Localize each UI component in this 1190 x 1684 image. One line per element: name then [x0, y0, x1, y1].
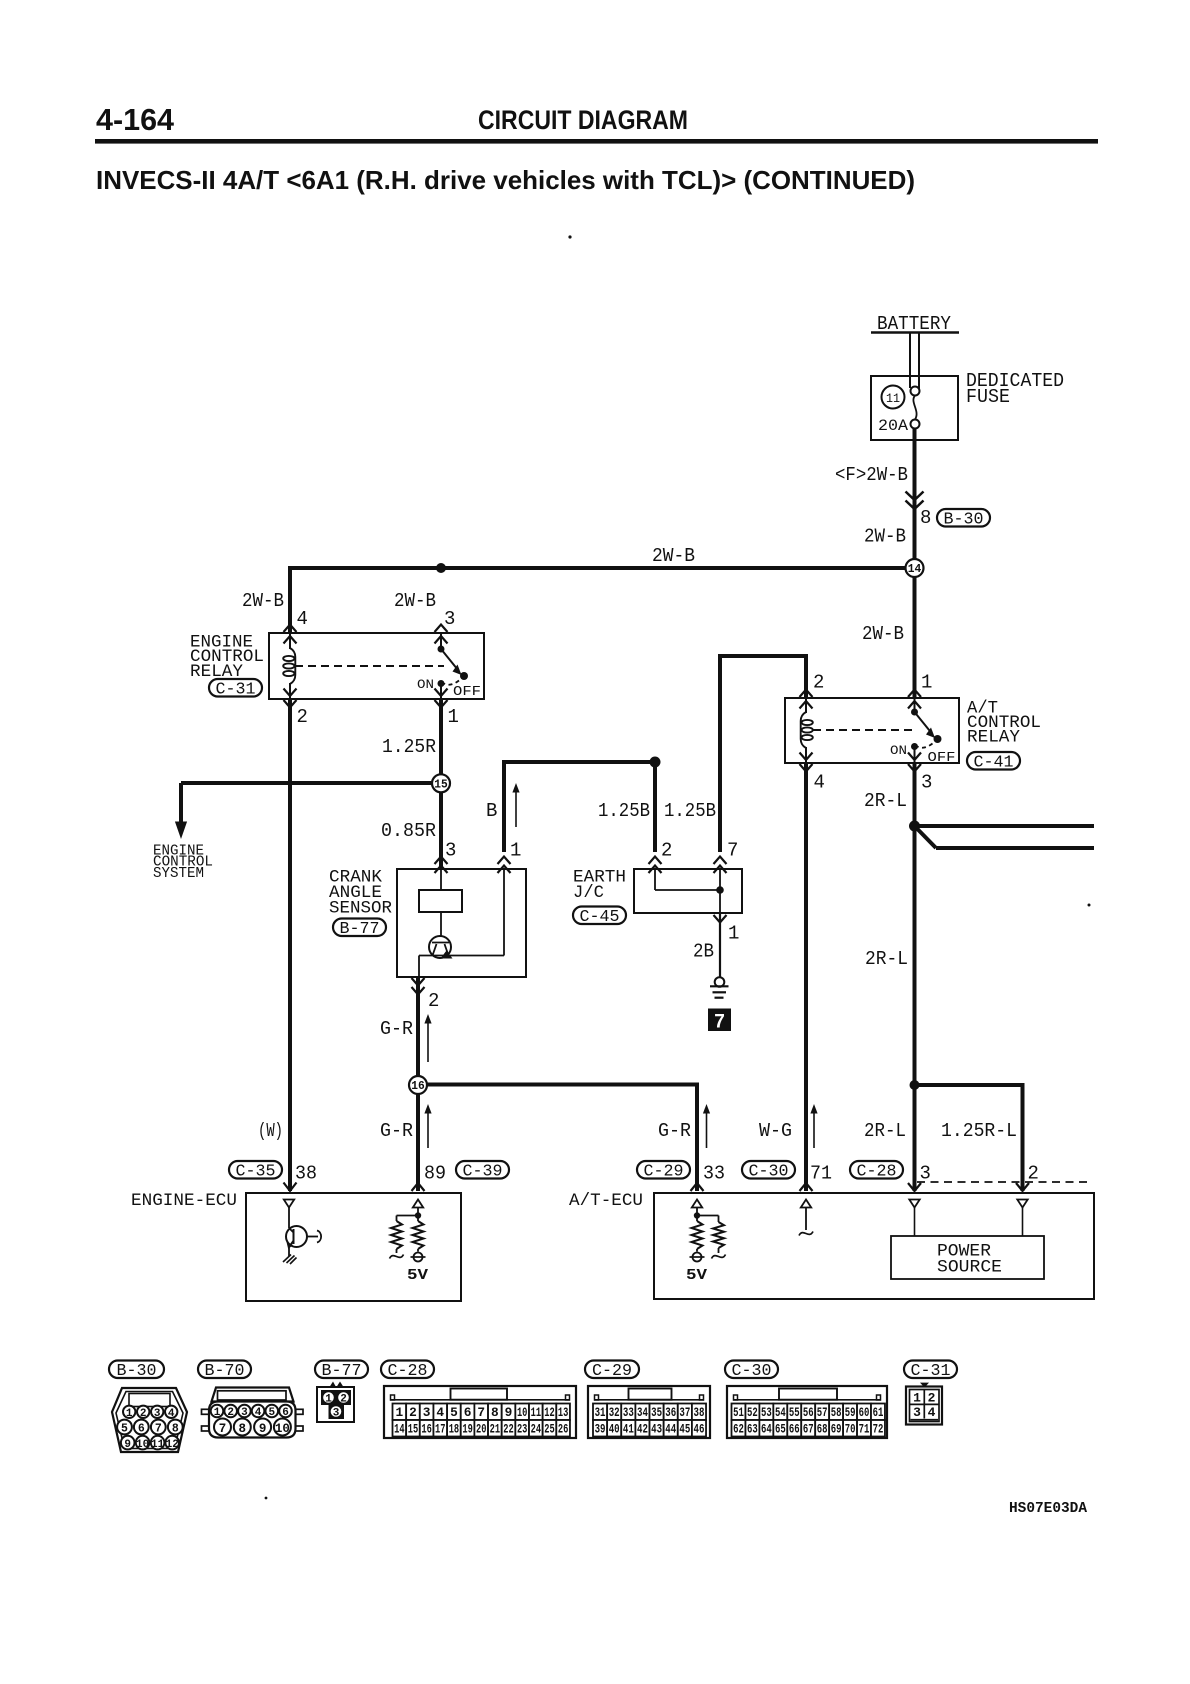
- svg-text:3: 3: [444, 608, 455, 630]
- svg-text:7: 7: [219, 1422, 227, 1436]
- svg-text:C-45: C-45: [580, 907, 620, 926]
- svg-text:6: 6: [282, 1407, 289, 1419]
- svg-text:4: 4: [168, 1408, 175, 1420]
- svg-text:7: 7: [155, 1423, 162, 1436]
- svg-text:2: 2: [227, 1407, 234, 1419]
- svg-text:4-164: 4-164: [96, 102, 175, 137]
- svg-text:SOURCE: SOURCE: [937, 1258, 1002, 1278]
- svg-text:10: 10: [275, 1422, 290, 1436]
- svg-text:2W-B: 2W-B: [394, 590, 436, 612]
- svg-text:31: 31: [595, 1405, 606, 1420]
- svg-text:20A: 20A: [878, 417, 908, 435]
- svg-text:1: 1: [510, 840, 521, 862]
- svg-text:54: 54: [775, 1405, 786, 1420]
- svg-text:8: 8: [491, 1405, 499, 1420]
- svg-text:INVECS-II 4A/T <6A1 (R.H. driv: INVECS-II 4A/T <6A1 (R.H. drive vehicles…: [96, 165, 915, 195]
- svg-text:W-G: W-G: [759, 1120, 792, 1142]
- svg-text:24: 24: [531, 1422, 542, 1437]
- svg-text:51: 51: [733, 1405, 744, 1420]
- svg-text:55: 55: [789, 1405, 800, 1420]
- svg-text:4: 4: [297, 608, 308, 630]
- svg-text:C-39: C-39: [463, 1162, 503, 1181]
- svg-text:C-28: C-28: [857, 1162, 897, 1181]
- svg-text:40: 40: [609, 1422, 620, 1437]
- svg-text:C-30: C-30: [749, 1162, 789, 1181]
- svg-text:52: 52: [747, 1405, 758, 1420]
- svg-text:43: 43: [651, 1422, 662, 1437]
- svg-text:2: 2: [409, 1405, 417, 1420]
- svg-text:B-70: B-70: [205, 1361, 245, 1380]
- svg-text:11: 11: [151, 1439, 165, 1451]
- svg-text:16: 16: [411, 1080, 425, 1093]
- svg-text:ENGINE-ECU: ENGINE-ECU: [131, 1191, 237, 1211]
- svg-text:2W-B: 2W-B: [864, 526, 906, 548]
- svg-text:11: 11: [531, 1405, 542, 1420]
- svg-text:8: 8: [239, 1422, 247, 1436]
- svg-text:ON: ON: [890, 743, 907, 758]
- svg-text:C-29: C-29: [592, 1361, 632, 1380]
- svg-text:6: 6: [464, 1405, 472, 1420]
- svg-text:3: 3: [423, 1405, 431, 1420]
- svg-text:B-77: B-77: [340, 919, 380, 938]
- svg-text:63: 63: [747, 1422, 758, 1437]
- svg-text:C-30: C-30: [732, 1361, 772, 1380]
- svg-text:5V: 5V: [407, 1267, 428, 1284]
- svg-text:G-R: G-R: [380, 1018, 413, 1040]
- svg-text:2R-L: 2R-L: [864, 790, 907, 812]
- svg-text:41: 41: [623, 1422, 634, 1437]
- svg-text:2: 2: [340, 1394, 347, 1406]
- svg-text:71: 71: [859, 1422, 870, 1437]
- svg-text:3: 3: [154, 1408, 161, 1420]
- svg-text:39: 39: [595, 1422, 606, 1437]
- svg-text:1.25R-L: 1.25R-L: [941, 1120, 1017, 1142]
- svg-text:21: 21: [490, 1422, 501, 1437]
- svg-text:OFF: OFF: [928, 750, 956, 766]
- svg-text:3: 3: [333, 1408, 340, 1420]
- svg-text:72: 72: [873, 1422, 884, 1437]
- svg-text:1: 1: [448, 706, 459, 728]
- svg-text:20: 20: [476, 1422, 486, 1437]
- svg-text:5V: 5V: [686, 1267, 707, 1284]
- svg-text:59: 59: [845, 1405, 856, 1420]
- svg-text:45: 45: [679, 1422, 690, 1437]
- svg-text:17: 17: [435, 1422, 445, 1437]
- svg-text:1: 1: [728, 923, 739, 945]
- svg-text:A/T-ECU: A/T-ECU: [569, 1191, 643, 1211]
- svg-text:8: 8: [172, 1423, 179, 1436]
- svg-text:5: 5: [450, 1405, 458, 1420]
- svg-text:2W-B: 2W-B: [242, 590, 284, 612]
- svg-text:70: 70: [845, 1422, 856, 1437]
- svg-text:OFF: OFF: [453, 684, 481, 700]
- svg-text:B-30: B-30: [944, 510, 984, 529]
- svg-text:12: 12: [544, 1405, 554, 1420]
- svg-text:69: 69: [831, 1422, 842, 1437]
- svg-text:33: 33: [623, 1405, 634, 1420]
- svg-text:1: 1: [126, 1408, 133, 1420]
- svg-text:B-30: B-30: [117, 1361, 157, 1380]
- svg-text:26: 26: [558, 1422, 568, 1437]
- svg-text:67: 67: [803, 1422, 814, 1437]
- svg-text:2W-B: 2W-B: [862, 623, 904, 645]
- svg-text:J/C: J/C: [573, 883, 604, 903]
- svg-text:C-31: C-31: [911, 1361, 951, 1380]
- svg-text:44: 44: [665, 1422, 676, 1437]
- svg-text:1: 1: [325, 1394, 332, 1406]
- svg-text:2: 2: [928, 1391, 936, 1406]
- svg-text:15: 15: [408, 1422, 419, 1437]
- svg-text:18: 18: [449, 1422, 459, 1437]
- svg-text:60: 60: [859, 1405, 870, 1420]
- svg-text:9: 9: [505, 1405, 513, 1420]
- svg-text:68: 68: [817, 1422, 828, 1437]
- svg-text:1.25R: 1.25R: [382, 736, 436, 758]
- svg-text:2: 2: [428, 990, 439, 1012]
- svg-text:11: 11: [886, 391, 900, 406]
- svg-text:36: 36: [665, 1405, 676, 1420]
- svg-text:0.85R: 0.85R: [381, 820, 436, 842]
- svg-text:6: 6: [138, 1423, 145, 1436]
- svg-text:71: 71: [810, 1163, 832, 1185]
- svg-text:B: B: [486, 800, 497, 822]
- svg-text:3: 3: [921, 772, 932, 794]
- svg-text:C-31: C-31: [216, 680, 256, 699]
- svg-text:46: 46: [694, 1422, 705, 1437]
- svg-text:56: 56: [803, 1405, 814, 1420]
- svg-text:42: 42: [637, 1422, 648, 1437]
- svg-text:SYSTEM: SYSTEM: [153, 866, 204, 882]
- svg-text:61: 61: [873, 1405, 884, 1420]
- svg-text:33: 33: [703, 1163, 725, 1185]
- svg-text:RELAY: RELAY: [967, 728, 1020, 748]
- svg-text:14: 14: [908, 563, 922, 576]
- svg-text:23: 23: [517, 1422, 528, 1437]
- svg-text:4: 4: [255, 1407, 262, 1419]
- svg-text:89: 89: [424, 1163, 446, 1185]
- svg-text:1: 1: [913, 1391, 921, 1406]
- svg-text:5: 5: [268, 1407, 275, 1419]
- svg-text:62: 62: [733, 1422, 744, 1437]
- svg-text:2R-L: 2R-L: [865, 948, 908, 970]
- svg-text:C-28: C-28: [388, 1361, 428, 1380]
- svg-text:ON: ON: [417, 677, 434, 692]
- svg-text:14: 14: [394, 1422, 405, 1437]
- svg-text:2: 2: [297, 706, 308, 728]
- svg-text:CIRCUIT DIAGRAM: CIRCUIT DIAGRAM: [478, 105, 688, 135]
- svg-text:16: 16: [421, 1422, 431, 1437]
- svg-text:SENSOR: SENSOR: [329, 899, 392, 919]
- svg-text:C-29: C-29: [644, 1162, 684, 1181]
- svg-text:5: 5: [121, 1423, 128, 1436]
- svg-text:4: 4: [814, 772, 825, 794]
- svg-text:HS07E03DA: HS07E03DA: [1009, 1500, 1087, 1517]
- svg-text:1: 1: [921, 672, 932, 694]
- svg-text:1.25B: 1.25B: [598, 800, 650, 822]
- svg-text:3: 3: [445, 840, 456, 862]
- svg-text:37: 37: [679, 1405, 690, 1420]
- svg-text:64: 64: [761, 1422, 772, 1437]
- svg-text:22: 22: [503, 1422, 513, 1437]
- svg-text:38: 38: [694, 1405, 705, 1420]
- svg-text:7: 7: [727, 840, 738, 862]
- svg-text:58: 58: [831, 1405, 842, 1420]
- svg-text:G-R: G-R: [380, 1120, 413, 1142]
- svg-text:1: 1: [395, 1405, 403, 1420]
- svg-text:4: 4: [928, 1405, 936, 1420]
- svg-text:1: 1: [214, 1407, 221, 1419]
- svg-text:2: 2: [813, 672, 824, 694]
- svg-text:25: 25: [544, 1422, 555, 1437]
- svg-text:B-77: B-77: [322, 1361, 362, 1380]
- svg-text:1.25B: 1.25B: [664, 800, 716, 822]
- svg-text:2W-B: 2W-B: [652, 545, 695, 567]
- svg-text:9: 9: [259, 1422, 267, 1436]
- svg-text:3: 3: [913, 1405, 921, 1420]
- svg-text:(W): (W): [258, 1120, 283, 1142]
- svg-text:2: 2: [140, 1408, 147, 1420]
- svg-text:G-R: G-R: [658, 1120, 691, 1142]
- svg-text:19: 19: [462, 1422, 472, 1437]
- svg-text:13: 13: [558, 1405, 569, 1420]
- svg-text:66: 66: [789, 1422, 800, 1437]
- svg-text:65: 65: [775, 1422, 786, 1437]
- svg-text:57: 57: [817, 1405, 828, 1420]
- svg-text:38: 38: [295, 1163, 317, 1185]
- svg-text:9: 9: [124, 1439, 131, 1451]
- svg-text:2: 2: [661, 840, 672, 862]
- svg-text:8: 8: [920, 507, 931, 529]
- svg-text:7: 7: [714, 1012, 725, 1033]
- svg-text:34: 34: [637, 1405, 648, 1420]
- svg-text:10: 10: [136, 1439, 149, 1451]
- svg-text:7: 7: [477, 1405, 485, 1420]
- svg-text:12: 12: [166, 1439, 179, 1451]
- svg-text:53: 53: [761, 1405, 772, 1420]
- svg-text:2R-L: 2R-L: [864, 1120, 906, 1142]
- svg-text:C-41: C-41: [974, 753, 1014, 772]
- svg-text:15: 15: [434, 779, 448, 792]
- svg-text:C-35: C-35: [236, 1162, 276, 1181]
- svg-text:FUSE: FUSE: [966, 386, 1010, 408]
- svg-text:3: 3: [241, 1407, 248, 1419]
- svg-text:<F>2W-B: <F>2W-B: [835, 464, 908, 486]
- svg-text:4: 4: [436, 1405, 444, 1420]
- svg-text:35: 35: [651, 1405, 662, 1420]
- svg-text:2B: 2B: [693, 941, 714, 963]
- svg-text:10: 10: [517, 1405, 527, 1420]
- svg-text:32: 32: [609, 1405, 620, 1420]
